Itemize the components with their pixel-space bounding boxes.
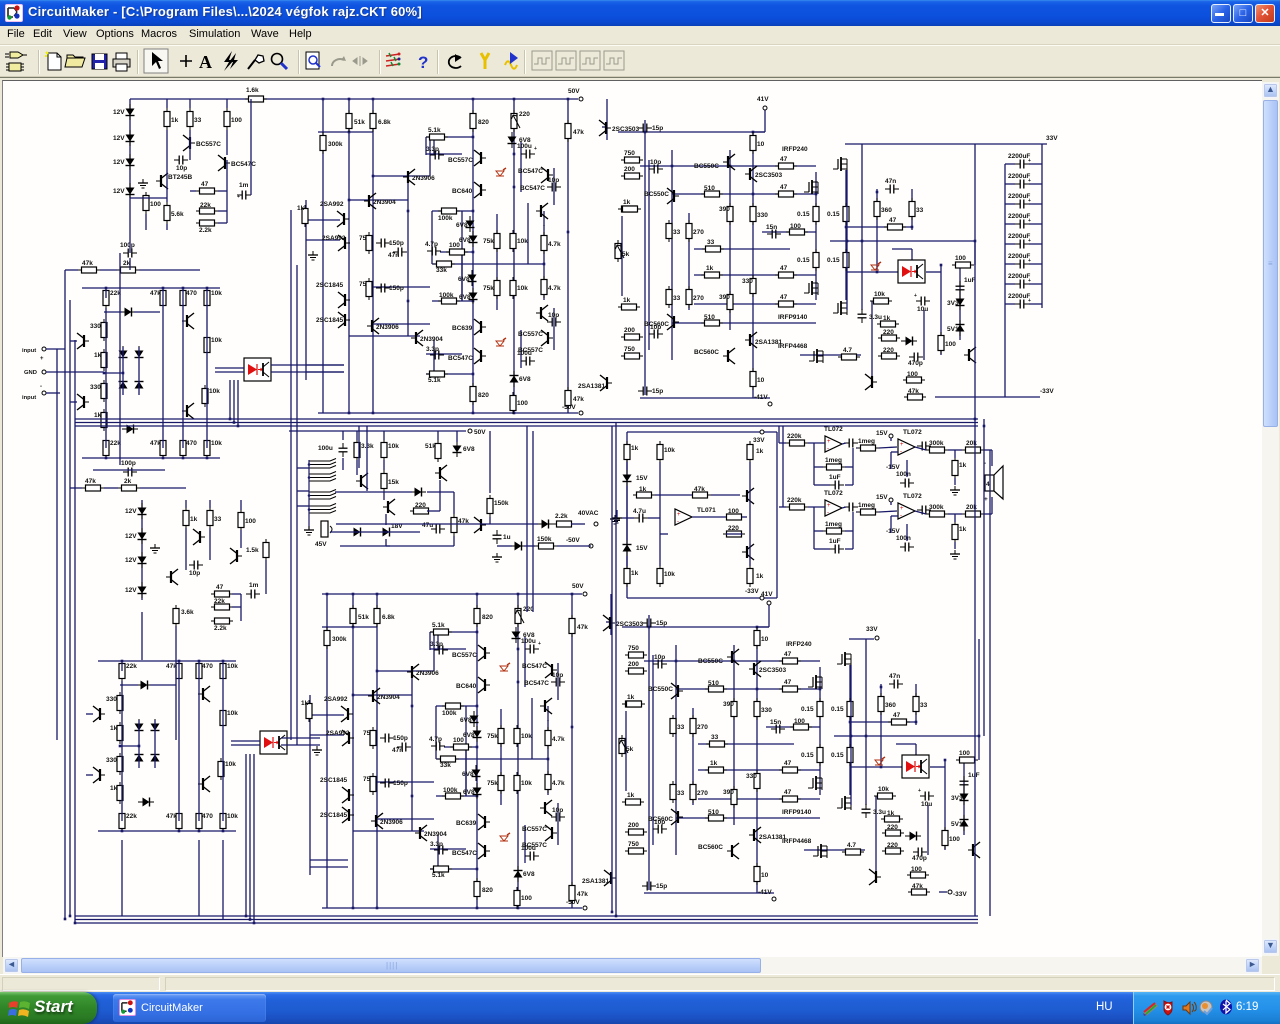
capacitor 1uF b <box>829 538 844 554</box>
svg-text:1meg: 1meg <box>825 521 842 528</box>
wire <box>190 191 227 223</box>
svg-text:33: 33 <box>214 516 222 523</box>
capacitor 4.7u <box>633 508 648 523</box>
resistor 2.2k <box>196 220 218 234</box>
transistor BT245B <box>166 569 178 585</box>
svg-text:100: 100 <box>728 508 739 515</box>
resistor 220k a <box>786 433 808 446</box>
capacitor 10p <box>189 561 203 578</box>
wire <box>146 214 167 230</box>
transistor Q3 <box>182 313 194 329</box>
wire <box>227 99 251 223</box>
capacitor 1m <box>246 582 260 599</box>
svg-text:150k: 150k <box>494 500 509 507</box>
diode D10 <box>349 528 365 537</box>
wire <box>215 368 244 372</box>
resistor 1k <box>183 507 198 529</box>
resistor 1k <box>164 108 179 130</box>
svg-text:-: - <box>827 446 829 452</box>
svg-text:33V: 33V <box>866 626 878 633</box>
wire <box>336 523 538 525</box>
wire rail 33V <box>845 135 1058 144</box>
terminal -50V <box>566 537 593 548</box>
svg-text:-: - <box>677 519 679 525</box>
capacitor 2200uF 6 <box>1005 253 1042 269</box>
resistor 5.6k <box>164 202 184 224</box>
svg-text:TL072: TL072 <box>903 429 922 436</box>
wire <box>692 516 747 518</box>
bus junction dots <box>64 418 986 925</box>
input stage 2 <box>86 660 287 833</box>
transistor Q8 <box>474 517 486 533</box>
svg-text:47k: 47k <box>150 440 161 447</box>
diode D9 <box>510 542 526 551</box>
transistor BC557C <box>183 135 221 151</box>
resistor 100 <box>238 509 256 531</box>
wire <box>163 288 207 448</box>
wire <box>46 349 104 393</box>
bus wires bottom <box>75 916 978 923</box>
resistor 1k d <box>624 565 639 587</box>
op-amp TL072 a2 <box>898 429 922 455</box>
svg-text:-33V: -33V <box>745 588 759 595</box>
diode D2 <box>119 346 128 362</box>
diode D4 <box>119 377 128 393</box>
svg-text:1k: 1k <box>190 516 198 523</box>
resistor 2.2k <box>211 618 233 632</box>
svg-text:+: + <box>827 439 831 445</box>
svg-text:100: 100 <box>245 518 256 525</box>
svg-text:+: + <box>40 356 44 362</box>
wire <box>330 492 420 546</box>
diode D7 <box>410 488 426 497</box>
ground a <box>950 486 960 495</box>
svg-text:22k: 22k <box>200 202 211 209</box>
bus opto1 drop <box>230 380 238 426</box>
svg-text:47: 47 <box>216 584 224 591</box>
terminal input+ <box>22 347 46 362</box>
ground b <box>492 553 502 562</box>
wire <box>915 447 992 450</box>
svg-text:GND: GND <box>24 370 37 376</box>
zener 12V 4 <box>113 183 135 199</box>
wire <box>891 502 898 533</box>
capacitor Cb1 <box>844 503 858 512</box>
ground c <box>612 514 622 523</box>
svg-text:1uF: 1uF <box>829 474 841 481</box>
svg-text:100p: 100p <box>121 460 136 467</box>
ground b <box>950 550 960 559</box>
wire <box>386 536 454 546</box>
wire bottom row <box>82 457 220 459</box>
terminal -33V bottom <box>939 890 967 898</box>
wire <box>660 533 742 535</box>
svg-text:15V: 15V <box>636 475 648 482</box>
svg-text:10k: 10k <box>211 440 222 447</box>
resistor 1k b <box>747 441 764 463</box>
svg-text:100u: 100u <box>318 445 333 452</box>
ground <box>138 179 148 188</box>
capacitor 10p <box>174 156 188 173</box>
transistor Q2 <box>77 394 89 410</box>
diode D8 <box>537 520 553 529</box>
resistor 22k b <box>103 437 121 459</box>
svg-text:220k: 220k <box>787 433 802 440</box>
terminal 33V bottom <box>849 626 879 640</box>
resistor 3.6k <box>173 605 194 627</box>
svg-text:12V: 12V <box>113 159 125 166</box>
wire <box>814 443 853 467</box>
transistor BT245B <box>156 173 193 189</box>
resistor 300k a <box>926 440 948 453</box>
wire <box>105 288 107 448</box>
wire x120 <box>119 253 121 465</box>
wire <box>1041 144 1043 308</box>
op-amp TL072 b1 <box>824 490 843 516</box>
svg-text:1k: 1k <box>94 352 102 359</box>
wire feed chain1 <box>778 426 780 443</box>
svg-text:100p: 100p <box>120 242 135 249</box>
wire <box>167 99 227 108</box>
transistor Q6 <box>383 499 395 515</box>
zener 12V b2 <box>125 528 147 544</box>
svg-text:1meg: 1meg <box>858 502 875 509</box>
svg-text:+: + <box>1028 218 1031 224</box>
svg-text:BC547C: BC547C <box>231 161 256 168</box>
label -15V a <box>886 464 900 471</box>
svg-text:10k: 10k <box>388 443 399 450</box>
svg-text:51k: 51k <box>425 443 436 450</box>
wire rail -33V <box>935 388 1054 397</box>
wire <box>384 460 386 525</box>
svg-text:1k: 1k <box>959 526 967 533</box>
svg-text:12V: 12V <box>113 188 125 195</box>
svg-text:10p: 10p <box>176 165 187 172</box>
resistor 1k a <box>952 457 967 479</box>
resistor 1k c <box>633 486 655 498</box>
svg-text:47k: 47k <box>82 260 93 267</box>
svg-text:-: - <box>40 384 42 390</box>
resistor 1k e <box>747 565 764 587</box>
transistor Q5 <box>356 473 368 489</box>
svg-text:12V: 12V <box>125 508 137 515</box>
wire <box>297 468 309 506</box>
resistor 33 <box>187 108 202 130</box>
capacitor 100n a <box>896 471 914 488</box>
wire <box>70 470 186 488</box>
resistor 2k <box>117 260 139 273</box>
resistor 47k <box>82 478 104 491</box>
resistor 15k <box>381 470 399 492</box>
wire <box>655 494 740 496</box>
svg-text:-50V: -50V <box>566 537 580 544</box>
wire <box>991 450 993 514</box>
resistor 220k b <box>786 497 808 510</box>
capacitor 2200uF 5 <box>1005 233 1042 249</box>
zener 12V 2 <box>113 130 135 146</box>
svg-text:1k: 1k <box>756 573 764 580</box>
wire <box>130 197 167 199</box>
optocoupler U1 <box>244 358 271 381</box>
svg-text:1m: 1m <box>249 582 259 589</box>
resistor 1k <box>94 349 107 371</box>
capacitor 2200uF 1 <box>1005 153 1042 169</box>
wire feed chain2 <box>782 426 784 507</box>
wire <box>915 511 992 514</box>
resistor 330 b <box>90 380 107 402</box>
svg-text:300k: 300k <box>929 504 944 511</box>
capacitor 47u <box>422 522 445 534</box>
svg-text:10p: 10p <box>189 570 200 577</box>
resistor 10k b <box>204 437 222 459</box>
wire <box>176 560 266 640</box>
wire link2 <box>281 738 320 745</box>
svg-text:33: 33 <box>194 117 202 124</box>
resistor 47k b <box>150 437 166 459</box>
wire <box>660 462 750 566</box>
svg-text:-: - <box>900 449 902 455</box>
transistor Qb <box>230 548 242 564</box>
resistor 1meg a1 <box>857 438 879 451</box>
wire rail top <box>130 98 318 100</box>
wire <box>232 594 241 621</box>
svg-text:input: input <box>22 395 36 401</box>
svg-text:10k: 10k <box>209 388 220 395</box>
svg-text:1k: 1k <box>631 445 639 452</box>
svg-text:220: 220 <box>415 502 426 509</box>
svg-text:10k: 10k <box>664 571 675 578</box>
resistor 150k <box>487 495 509 517</box>
svg-text:+: + <box>237 194 240 200</box>
svg-text:10k: 10k <box>664 447 675 454</box>
resistor 1k <box>624 441 639 463</box>
resistor 10k <box>204 287 222 309</box>
terminal 15V a <box>876 430 893 438</box>
svg-text:47k: 47k <box>85 478 96 485</box>
svg-text:2.2k: 2.2k <box>555 513 568 520</box>
resistor 47 <box>211 584 233 597</box>
svg-text:TL072: TL072 <box>824 490 843 497</box>
svg-text:+: + <box>1028 298 1031 304</box>
resistor 22k <box>196 202 218 214</box>
svg-text:+: + <box>900 442 904 448</box>
svg-text:+: + <box>900 506 904 512</box>
svg-text:+: + <box>1028 238 1031 244</box>
resistor 47k <box>689 486 711 498</box>
resistor 10k b <box>657 565 675 587</box>
svg-text:3.6k: 3.6k <box>181 609 194 616</box>
ground <box>304 526 314 535</box>
wire x130 <box>129 198 131 246</box>
bus right vertical <box>975 241 990 916</box>
svg-text:+: + <box>677 512 681 518</box>
transistor Q10 <box>742 544 754 560</box>
zener 12V 1 <box>113 104 135 120</box>
wire <box>891 438 898 469</box>
svg-text:330: 330 <box>90 323 101 330</box>
resistor 33 <box>207 507 222 529</box>
resistor 10k <box>657 441 675 463</box>
svg-text:4.7u: 4.7u <box>633 508 646 515</box>
battery 45V <box>315 521 332 548</box>
resistor 470 <box>180 287 197 309</box>
svg-text:47k: 47k <box>694 486 705 493</box>
wire <box>842 443 897 448</box>
resistor 220 <box>723 525 745 537</box>
resistor 47 <box>196 181 218 194</box>
op-amp TL071 <box>675 507 716 525</box>
svg-text:+: + <box>1028 258 1031 264</box>
svg-text:1k: 1k <box>639 486 647 493</box>
zener 15V b <box>623 540 649 556</box>
capacitor 2200uF 8 <box>1005 293 1042 309</box>
wire <box>626 462 628 566</box>
resistor 20k a <box>962 440 984 453</box>
resistor 2.2k <box>553 513 575 527</box>
wire <box>814 531 853 549</box>
capacitor 100p <box>120 242 137 258</box>
svg-text:100n: 100n <box>896 471 911 478</box>
svg-text:300k: 300k <box>929 440 944 447</box>
bus wires mid <box>75 419 978 426</box>
svg-text:470: 470 <box>186 440 197 447</box>
transistor Q1 <box>77 333 89 349</box>
capacitor 2200uF 2 <box>1005 173 1042 189</box>
svg-text:+: + <box>827 503 831 509</box>
transistor Q <box>193 529 205 545</box>
capacitor Cb2 <box>917 506 931 515</box>
svg-text:1.5k: 1.5k <box>246 547 259 554</box>
resistor 47k <box>150 287 166 309</box>
svg-text:1k: 1k <box>171 117 179 124</box>
svg-text:33V: 33V <box>1046 135 1058 142</box>
transistor Q9 <box>742 488 754 504</box>
resistor 2k <box>118 478 140 491</box>
wire block2 drop <box>122 612 223 919</box>
zener 15V <box>623 470 649 486</box>
zener 12V b4 <box>125 582 147 598</box>
diode D5 <box>135 377 144 393</box>
svg-text:2.2k: 2.2k <box>214 625 227 632</box>
svg-text:BC557C: BC557C <box>196 141 221 148</box>
diode D6 <box>122 425 138 434</box>
op-amp TL072 b2 <box>898 493 922 519</box>
svg-text:5.6k: 5.6k <box>171 211 184 218</box>
label -15V b <box>886 528 900 535</box>
wire <box>489 431 491 524</box>
svg-text:10k: 10k <box>211 290 222 297</box>
svg-text:47u: 47u <box>422 522 433 529</box>
wire <box>141 500 143 600</box>
wire rail 50V <box>289 429 486 436</box>
wire <box>104 372 123 374</box>
wire <box>186 528 241 570</box>
svg-text:1k: 1k <box>756 448 764 455</box>
wire <box>123 347 139 395</box>
svg-text:TL071: TL071 <box>697 507 716 514</box>
svg-text:1.6k: 1.6k <box>246 87 259 94</box>
zener 12V 3 <box>113 154 135 170</box>
terminal -33V <box>745 588 764 600</box>
capacitor Ca2 <box>917 442 931 451</box>
resistor 47k <box>451 514 469 536</box>
resistor 1.5k <box>246 539 269 561</box>
svg-text:1m: 1m <box>239 182 249 189</box>
svg-text:1k: 1k <box>959 462 967 469</box>
svg-text:1meg: 1meg <box>825 457 842 464</box>
svg-text:-: - <box>827 510 829 516</box>
svg-text:10k: 10k <box>211 337 222 344</box>
svg-text:33V: 33V <box>753 437 765 444</box>
diode D1 <box>120 308 136 317</box>
resistor 20k b <box>962 504 984 517</box>
svg-text:47: 47 <box>201 181 209 188</box>
wire <box>842 507 897 512</box>
resistor 150k b <box>535 536 557 549</box>
wire <box>186 500 241 510</box>
terminal GND <box>24 370 46 376</box>
capacitor 1uF a <box>829 474 844 490</box>
svg-text:input: input <box>22 348 36 354</box>
svg-text:1meg: 1meg <box>858 438 875 445</box>
wire <box>907 514 955 549</box>
wire <box>779 506 825 508</box>
svg-text:-15V: -15V <box>886 528 900 535</box>
resistor 1k b <box>94 409 107 431</box>
zener 6V8 <box>453 441 475 457</box>
resistor 3.3k <box>354 439 374 461</box>
svg-text:470: 470 <box>186 290 197 297</box>
wire <box>779 442 825 444</box>
transistor Q7 <box>435 465 447 481</box>
resistor 470 b <box>180 437 197 459</box>
bus left verticals <box>57 270 75 923</box>
svg-text:+: + <box>1028 278 1031 284</box>
wire link1 <box>271 365 367 491</box>
svg-text:A: A <box>199 52 212 72</box>
resistor 330 <box>90 319 107 341</box>
svg-text:100n: 100n <box>896 535 911 542</box>
resistor 51k <box>425 440 441 462</box>
svg-text:100: 100 <box>231 117 242 124</box>
svg-text:1k: 1k <box>94 412 102 419</box>
wire <box>814 467 853 485</box>
wire <box>1004 164 1006 397</box>
svg-text:15V: 15V <box>876 494 888 501</box>
transformer coil <box>308 459 336 530</box>
capacitor 100p <box>121 460 137 477</box>
svg-text:-: - <box>900 513 902 519</box>
zener 12V b1 <box>125 503 147 519</box>
svg-text:-33V: -33V <box>1040 388 1054 395</box>
capacitor 100n b <box>896 535 914 552</box>
wire <box>343 431 457 442</box>
wire <box>129 99 131 198</box>
svg-text:1uF: 1uF <box>829 538 841 545</box>
junction dots <box>103 287 209 460</box>
capacitor Ca1 <box>844 439 858 448</box>
svg-text:-15V: -15V <box>886 464 900 471</box>
svg-text:45V: 45V <box>315 541 327 548</box>
wire top row <box>82 287 220 289</box>
svg-text:47k: 47k <box>150 290 161 297</box>
capacitor 100u <box>318 443 348 457</box>
resistor 22k <box>103 287 121 309</box>
svg-text:+: + <box>1028 158 1031 164</box>
resistor 100 <box>723 508 745 520</box>
svg-text:+: + <box>1028 178 1031 184</box>
svg-text:12V: 12V <box>113 135 125 142</box>
